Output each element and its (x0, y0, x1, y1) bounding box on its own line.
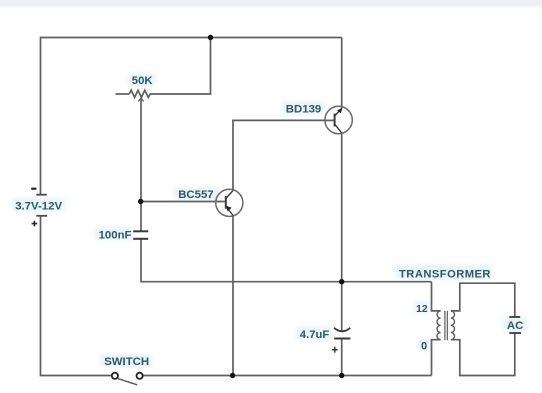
svg-text:BC557: BC557 (178, 189, 213, 201)
svg-text:TRANSFORMER: TRANSFORMER (399, 269, 491, 281)
svg-text:3.7V-12V: 3.7V-12V (15, 201, 62, 213)
svg-text:SWITCH: SWITCH (104, 356, 149, 368)
svg-text:50K: 50K (132, 75, 154, 87)
svg-text:0: 0 (421, 340, 427, 352)
svg-text:100nF: 100nF (99, 230, 132, 242)
svg-text:BD139: BD139 (286, 104, 321, 116)
svg-text:12: 12 (416, 304, 428, 315)
svg-text:4.7uF: 4.7uF (300, 329, 330, 341)
svg-text:AC: AC (507, 320, 523, 332)
